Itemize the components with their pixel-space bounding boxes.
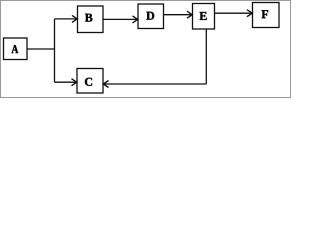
wire E to F — [215, 12, 252, 14]
node A — [4, 38, 28, 60]
node B — [78, 6, 104, 33]
arrowhead into E — [187, 11, 192, 18]
node E — [193, 4, 215, 30]
wire E stem down — [205, 29, 207, 84]
wire return to C — [104, 83, 207, 85]
arrowhead into C left — [72, 79, 77, 86]
wire D to E — [164, 14, 192, 16]
node C — [77, 69, 103, 94]
arrowhead into B — [72, 15, 77, 22]
node D — [138, 4, 164, 29]
wire trunk to B — [55, 18, 77, 20]
arrowhead into F — [247, 10, 252, 17]
wire trunk to C — [55, 81, 77, 83]
wire B to D — [103, 18, 137, 20]
wire trunk vertical — [54, 19, 56, 82]
figure background — [0, 0, 291, 98]
node F — [253, 3, 280, 28]
figure frame (light gray) — [1, 1, 291, 98]
wire A to split trunk — [27, 48, 55, 50]
arrowhead into C right — [103, 81, 108, 88]
arrowhead into D — [133, 16, 138, 23]
